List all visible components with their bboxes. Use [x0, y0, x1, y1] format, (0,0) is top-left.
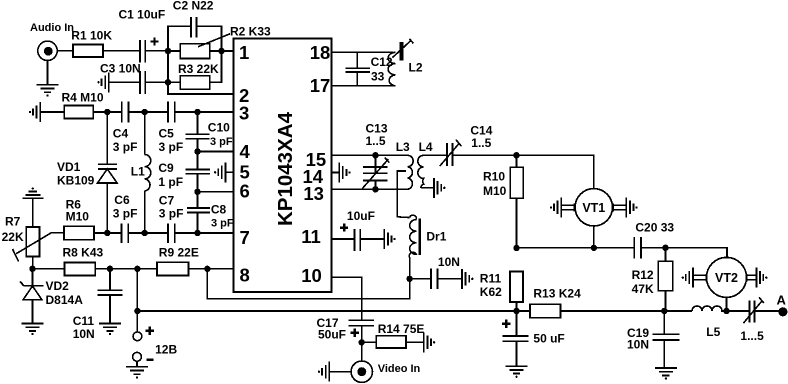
inductor L3 [396, 140, 413, 218]
capacitor 50uF [502, 311, 565, 366]
ground VD2 [22, 324, 44, 336]
node C11 top [107, 266, 113, 272]
svg-text:M10: M10 [483, 184, 507, 198]
svg-text:3 pF: 3 pF [159, 140, 184, 154]
resistor R9 22E [157, 245, 234, 275]
capacitor C10 3pF [186, 112, 233, 169]
trimmer capacitor C13 1..5 [362, 122, 389, 190]
svg-text:KP1043XA4: KP1043XA4 [274, 111, 297, 226]
VT2 left strip ground [682, 268, 707, 288]
svg-text:11: 11 [301, 226, 321, 247]
svg-text:C6: C6 [114, 193, 130, 207]
Video In connector J2 [329, 361, 420, 382]
zener VD2 D814A [20, 269, 83, 324]
capacitor C5 3pF [159, 102, 234, 154]
svg-text:R14 75E: R14 75E [378, 322, 425, 336]
svg-text:6: 6 [240, 180, 250, 201]
svg-text:50 uF: 50 uF [533, 332, 564, 346]
inductor L2 [388, 52, 423, 86]
ground minus terminal [126, 367, 148, 379]
svg-text:33: 33 [371, 69, 385, 83]
wire VT2 to output cap [727, 310, 750, 312]
capacitor C11 10N [73, 269, 123, 341]
node R10 top [513, 152, 519, 158]
svg-text:10: 10 [301, 265, 322, 286]
svg-text:C20 33: C20 33 [635, 221, 674, 235]
svg-text:C10: C10 [208, 121, 230, 135]
node R2 right [218, 48, 224, 54]
capacitor C2 N22 [173, 0, 214, 38]
ground C19 [655, 368, 677, 380]
ground pin5 [214, 162, 234, 182]
transistor VT2 [707, 257, 747, 311]
capacitor C3 10N [100, 61, 168, 94]
wire pin14 ground [332, 163, 351, 183]
svg-text:17: 17 [310, 75, 331, 96]
svg-text:K62: K62 [480, 285, 502, 299]
svg-text:10uF: 10uF [347, 209, 375, 223]
svg-text:Dr1: Dr1 [426, 229, 446, 243]
ground 10N [462, 269, 474, 289]
svg-text:A: A [777, 292, 787, 307]
wire pin10 [332, 277, 362, 320]
capacitor C8 3pF [187, 202, 234, 233]
svg-text:3 pF: 3 pF [113, 140, 138, 154]
capacitor C9 1pF [158, 161, 210, 208]
capacitor C17 50uF [317, 316, 375, 361]
svg-text:7: 7 [240, 227, 250, 248]
svg-text:VD1: VD1 [57, 160, 81, 174]
wire pin6 [198, 191, 234, 193]
capacitor C7 3pF [159, 194, 234, 243]
node pin7 row left [104, 230, 110, 236]
wire R1 to C1 [103, 50, 140, 52]
capacitor C12 33 [346, 52, 393, 86]
svg-text:4: 4 [240, 141, 251, 162]
svg-text:50uF: 50uF [318, 328, 346, 342]
wire pin15 [332, 154, 408, 156]
ground video connector [318, 362, 330, 382]
capacitor 10N Dr1 [410, 255, 462, 289]
wire pin18 [332, 51, 394, 53]
svg-text:VT1: VT1 [582, 201, 605, 215]
wire pin11 [332, 224, 355, 240]
svg-text:VD2: VD2 [46, 279, 70, 293]
ground [37, 85, 59, 97]
trimmer capacitor 1...5 output [740, 297, 778, 343]
svg-text:R10: R10 [483, 170, 505, 184]
capacitor C1 10uF [119, 8, 169, 63]
svg-text:Video In: Video In [378, 363, 421, 375]
svg-text:10N: 10N [73, 327, 95, 341]
node pin8 right [204, 266, 210, 272]
svg-text:18: 18 [310, 42, 331, 63]
ground above R7 [22, 187, 43, 198]
svg-text:R11: R11 [480, 272, 502, 286]
wire pin8 node to Dr1 bottom [207, 269, 409, 299]
choke Dr1 [409, 215, 446, 279]
svg-text:1..5: 1..5 [366, 134, 386, 148]
wire pin4 [198, 151, 234, 153]
node video [359, 339, 365, 345]
ground 50uF [506, 366, 528, 378]
+12V rail [137, 310, 692, 312]
svg-text:C1 10uF: C1 10uF [119, 8, 166, 22]
node R10/R11/C20 [513, 245, 519, 251]
resistor R8 K43 [33, 246, 158, 276]
inductor L1 [131, 112, 151, 233]
trimmer capacitor C14 1..5 [440, 124, 517, 167]
wire to VT1 collector [517, 155, 594, 188]
wire VT1 emitter row [517, 248, 728, 258]
svg-text:L1: L1 [131, 164, 145, 178]
node Dr1 bottom [406, 276, 412, 282]
node R11 bottom [513, 308, 519, 314]
svg-text:R7: R7 [5, 214, 21, 228]
capacitor C19 10N [627, 311, 679, 368]
Audio In connector J1 [38, 41, 73, 85]
node C13 top [372, 152, 378, 158]
resistor R6 M10 [51, 197, 121, 239]
svg-text:10N: 10N [438, 255, 460, 269]
resistor R14 75E [362, 322, 425, 348]
resistor R10 M10 [483, 155, 523, 248]
svg-text:1...5: 1...5 [740, 329, 764, 343]
svg-text:C4: C4 [113, 126, 129, 140]
node C3/R3 [165, 79, 171, 85]
VT1 right strip ground [613, 197, 638, 217]
wire 12V to rail [136, 269, 138, 311]
resistor R13 K24 [530, 286, 581, 317]
capacitor C20 33 [634, 221, 674, 259]
svg-text:3 pF: 3 pF [159, 206, 184, 220]
svg-text:3 pF: 3 pF [210, 136, 233, 148]
node pin3 [194, 109, 200, 115]
svg-text:13: 13 [303, 183, 324, 204]
wire top rail [168, 26, 222, 51]
svg-text:M10: M10 [66, 210, 90, 224]
node L1 bottom [142, 230, 148, 236]
inductor L5 [692, 306, 727, 339]
svg-text:3 pF: 3 pF [211, 218, 234, 230]
svg-text:L5: L5 [706, 325, 720, 339]
svg-text:3 pF: 3 pF [113, 206, 138, 220]
svg-text:D814A: D814A [46, 293, 84, 307]
node A output terminal [777, 292, 788, 316]
ground C11 [99, 324, 121, 336]
node 12V drop [134, 266, 140, 272]
svg-text:C8: C8 [211, 202, 227, 216]
node L1 top [142, 109, 148, 115]
12V minus terminal [133, 343, 178, 367]
wire left rail down to pin2 [168, 51, 234, 94]
antenna W1 [392, 39, 413, 61]
resistor R4 M10 [40, 90, 122, 118]
node VD1 top [104, 109, 110, 115]
resistor R1 [71, 29, 112, 58]
resistor R11 K62 [480, 272, 523, 312]
node VT1 bottom [591, 245, 597, 251]
wire node to R2 and R2 to IC pin1 [168, 50, 234, 52]
svg-text:3: 3 [239, 102, 249, 123]
node VT2 bottom [723, 308, 729, 314]
VT1 left strip ground [550, 197, 575, 217]
svg-text:1..5: 1..5 [471, 136, 491, 150]
svg-text:C11: C11 [73, 314, 95, 328]
wire pin17 [332, 85, 396, 87]
resistor R12 47K [632, 248, 673, 311]
svg-text:C3 10N: C3 10N [100, 61, 141, 75]
inductor L4 [418, 140, 447, 188]
node pin7 right [194, 230, 200, 236]
svg-text:C2 N22: C2 N22 [173, 0, 214, 13]
svg-text:Audio In: Audio In [30, 22, 74, 34]
ground R4 left [29, 102, 41, 122]
ground C3 left [97, 72, 109, 92]
trimmer resistor R7 22K [2, 198, 52, 268]
svg-text:L3: L3 [396, 140, 410, 154]
node rail left [134, 308, 140, 314]
svg-text:KB109: KB109 [57, 173, 95, 187]
svg-text:R2 K33: R2 K33 [230, 24, 271, 38]
svg-text:R13 K24: R13 K24 [533, 286, 581, 300]
capacitor C4 3pF [113, 102, 168, 154]
svg-text:1: 1 [239, 42, 249, 63]
capacitor 10uF pin11 [347, 209, 384, 251]
capacitor C6 3pF [113, 193, 168, 243]
svg-text:L2: L2 [409, 61, 423, 75]
node R12 top [662, 245, 668, 251]
svg-text:22K: 22K [2, 230, 24, 244]
node pin8 row left [29, 266, 35, 272]
svg-text:12B: 12B [155, 343, 177, 357]
svg-text:C12: C12 [371, 55, 393, 69]
svg-text:C9: C9 [158, 161, 174, 175]
IC U1 KP1043XA4 [234, 39, 332, 293]
node pin4 [194, 148, 200, 154]
varicap VD1 KB109 [57, 112, 117, 233]
node pin6 [194, 189, 200, 195]
node C19/L5 [661, 308, 667, 314]
wire pin13 [332, 188, 409, 190]
svg-text:R1 10K: R1 10K [71, 29, 112, 43]
svg-text:L4: L4 [419, 140, 433, 154]
ground L4 [434, 178, 446, 198]
transistor VT1 [575, 189, 612, 248]
svg-text:VT2: VT2 [715, 271, 738, 285]
svg-text:R9 22E: R9 22E [159, 245, 199, 259]
svg-text:C5: C5 [159, 126, 175, 140]
VT2 right strip ground [746, 268, 767, 288]
resistor R3 22K [168, 51, 222, 89]
svg-text:8: 8 [240, 265, 250, 286]
svg-text:R12: R12 [632, 268, 654, 282]
node C13 bottom [372, 186, 378, 192]
12V plus terminal [133, 311, 154, 341]
svg-text:R4 M10: R4 M10 [62, 90, 104, 104]
svg-text:R3 22K: R3 22K [178, 62, 219, 76]
ground R14 [424, 332, 436, 352]
svg-text:10N: 10N [627, 337, 649, 351]
svg-text:C7: C7 [159, 194, 175, 208]
ground 10uF [384, 229, 396, 249]
svg-text:1 pF: 1 pF [158, 175, 183, 189]
svg-text:5: 5 [240, 161, 250, 182]
node pin1 left [165, 48, 171, 54]
svg-text:47K: 47K [632, 282, 654, 296]
svg-text:R8 K43: R8 K43 [63, 246, 104, 260]
resistor R2 K33 [180, 24, 271, 58]
